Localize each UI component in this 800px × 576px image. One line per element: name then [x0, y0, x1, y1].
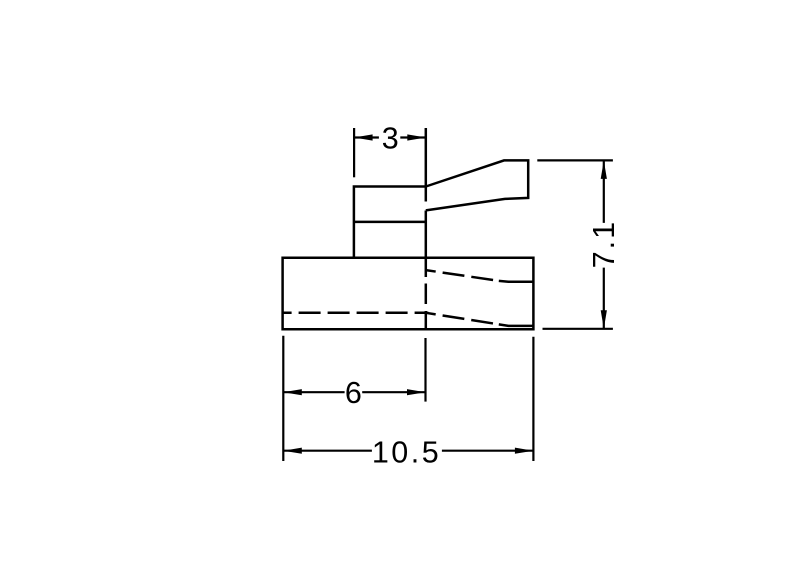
svg-text:7.1: 7.1 [587, 220, 621, 268]
svg-text:6: 6 [345, 376, 362, 410]
svg-text:10.5: 10.5 [372, 435, 441, 469]
svg-text:3: 3 [382, 122, 399, 156]
